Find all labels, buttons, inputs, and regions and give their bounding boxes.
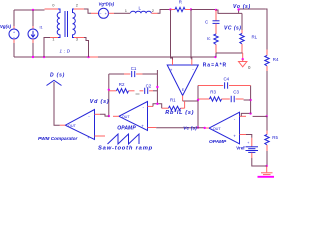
svg-text:R: R <box>179 0 182 5</box>
pin plus comparator <box>95 135 106 137</box>
wire top rail left <box>14 9 50 10</box>
wire R to C node <box>191 9 216 12</box>
svg-text:Vo (s): Vo (s) <box>233 4 251 10</box>
resistor R3 <box>198 97 230 101</box>
node dot rail end <box>214 56 216 58</box>
pin minus U3 <box>240 115 247 117</box>
voltage source Vg <box>9 10 19 57</box>
label R1 <box>170 97 176 102</box>
svg-text:I1: I1 <box>40 25 43 29</box>
svg-text:Vg(s): Vg(s) <box>0 24 12 29</box>
label D(s) <box>50 73 65 79</box>
wire Vo corner to R4 <box>265 9 267 50</box>
wire secondary return <box>84 38 89 58</box>
node dot primary return <box>43 56 45 58</box>
wire primary return <box>44 38 50 58</box>
svg-text:C1: C1 <box>131 66 137 71</box>
svg-text:Rb*IL (s): Rb*IL (s) <box>165 110 194 116</box>
svg-text:+: + <box>170 68 173 73</box>
label I1 <box>40 25 43 29</box>
resistor R4 <box>265 50 269 117</box>
node dot ground <box>242 58 244 60</box>
svg-text:Vg*D(s): Vg*D(s) <box>99 1 115 6</box>
svg-text:+: + <box>247 141 249 145</box>
svg-text:OPAMP: OPAMP <box>209 139 227 145</box>
pin plus U3 <box>240 134 247 136</box>
wire divider to minus input <box>253 115 267 117</box>
wire Vc to plus U1 <box>156 127 209 129</box>
label Saw-tooth ramp <box>98 146 153 152</box>
svg-text:VC (s): VC (s) <box>224 26 241 32</box>
svg-text:OPAMP: OPAMP <box>117 126 136 132</box>
svg-text:Vc (s): Vc (s) <box>183 125 197 130</box>
ground bottom right <box>258 166 275 177</box>
label C <box>205 19 208 24</box>
node dot Vd out <box>108 115 110 117</box>
label Vo (s) <box>233 4 251 10</box>
transformer TX 1:D <box>50 9 84 38</box>
node dot C2 right <box>156 86 158 88</box>
label RL <box>252 35 258 40</box>
wire L to R <box>158 10 171 14</box>
label R2 <box>119 82 125 87</box>
label Rb*IL(s) <box>165 110 194 116</box>
label Ra=A*R <box>203 62 227 68</box>
capacitor C4 <box>198 82 251 88</box>
pin minus U2 <box>191 60 193 66</box>
capacitor C1 <box>109 71 158 77</box>
wire feedback left vertical U1 <box>108 74 110 116</box>
label Vg*D(s) <box>99 1 115 6</box>
node dot I1 bottom <box>32 56 34 58</box>
label OPAMP U3 <box>209 139 227 145</box>
label PWM Comparator <box>38 136 79 141</box>
pin minus comparator <box>95 113 101 115</box>
wire R2-C2 link <box>136 93 140 95</box>
label OPAMP U1 <box>117 126 136 132</box>
node dot Vo <box>237 8 239 10</box>
wire to ground 0 <box>242 53 244 59</box>
node dot secondary return <box>87 56 89 58</box>
label OUT U3 <box>213 127 222 131</box>
svg-text:Vd (s): Vd (s) <box>90 99 110 105</box>
pin 3 <box>76 37 79 42</box>
pin plus U1 <box>148 127 157 129</box>
node dot Vc <box>197 126 199 128</box>
ground 0 <box>239 59 247 67</box>
label R3 <box>210 90 216 95</box>
wire Vc feedback left vertical <box>197 86 199 128</box>
wire Vo tap <box>239 9 266 13</box>
label OUT comparator <box>68 124 77 128</box>
label OUT U1 <box>122 115 131 119</box>
svg-text:Vref: Vref <box>236 145 245 150</box>
op-amp U1 OPAMP (current error amp) <box>119 102 148 131</box>
label 1 : D <box>60 48 71 53</box>
svg-text:OUT: OUT <box>213 127 222 131</box>
svg-text:RL: RL <box>252 35 258 40</box>
wire comparator out to D(s) arrow <box>54 82 60 125</box>
op-amp PWM comparator <box>65 110 94 141</box>
wire secondary top to source <box>84 9 91 13</box>
op-amp U3 OPAMP (voltage error amp) <box>209 112 240 144</box>
pin out comparator <box>60 124 66 126</box>
svg-text:R5: R5 <box>272 135 278 140</box>
svg-text:C4: C4 <box>224 76 230 81</box>
node dot minus-R1 <box>156 103 158 105</box>
node dot Vc apex <box>204 127 206 129</box>
resistor RL <box>240 13 244 53</box>
svg-text:R1: R1 <box>170 97 176 102</box>
resistor R5 <box>265 116 269 166</box>
wire rc-RL bottom link <box>216 52 243 54</box>
label 0 ground <box>248 65 251 70</box>
wire rail to RL corner <box>216 10 242 13</box>
node dot R2 left <box>108 89 110 91</box>
label VC (s) <box>224 26 241 32</box>
pin plus U2 <box>172 60 174 66</box>
wire sense right (R right terminal down) <box>190 10 193 60</box>
wire source to L <box>114 12 130 14</box>
battery Vref <box>246 138 267 166</box>
wire bottom rail <box>14 56 216 58</box>
pin minus U1 <box>148 105 154 107</box>
svg-text:+: + <box>87 135 90 140</box>
label C1 <box>131 66 137 71</box>
node dot divider <box>266 115 268 117</box>
resistor rc <box>214 34 218 57</box>
resistor R <box>171 7 192 11</box>
label C3 <box>233 90 239 95</box>
wire U2 output <box>183 96 198 102</box>
svg-text:R4: R4 <box>273 57 279 62</box>
wire sense left (R left terminal down) <box>171 10 173 60</box>
svg-text:R3: R3 <box>210 90 216 95</box>
resistor R2 <box>109 89 135 93</box>
svg-text:Ra=A*R: Ra=A*R <box>203 62 227 68</box>
node dot R left <box>169 8 171 10</box>
wire Vd node to comparator <box>100 114 109 116</box>
label R4 <box>273 57 279 62</box>
current source I1 <box>28 10 38 57</box>
svg-text:C2: C2 <box>146 83 152 88</box>
svg-text:C: C <box>205 19 208 24</box>
svg-text:+: + <box>141 124 144 129</box>
node dot R right <box>190 8 192 10</box>
pin 2 <box>76 3 79 8</box>
node dot feedback bottom <box>249 112 251 114</box>
svg-text:OUT: OUT <box>122 115 131 119</box>
label Vref <box>236 145 245 150</box>
svg-text:D (s): D (s) <box>50 73 65 79</box>
label rc <box>207 36 211 41</box>
node dot amp-out <box>197 99 199 101</box>
wire minus node elbow <box>153 104 162 108</box>
node dot feedback mid <box>249 99 251 101</box>
pin 0 <box>52 3 55 8</box>
inductor L <box>131 11 158 13</box>
op-amp U2 current sense amp (triangle down) <box>167 65 198 96</box>
label C4 <box>224 76 230 81</box>
label L <box>139 6 142 11</box>
label Vc(s) <box>183 125 197 130</box>
wire minus input net <box>241 113 250 116</box>
resistor R1 <box>162 101 185 110</box>
svg-text:R2: R2 <box>119 82 125 87</box>
pin 1 of L <box>125 8 128 13</box>
voltage source Vg*D(s) <box>91 8 114 18</box>
svg-text:PWM Comparator: PWM Comparator <box>38 136 79 141</box>
pin 2 of L <box>152 8 155 13</box>
capacitor C <box>213 10 220 34</box>
label R <box>179 0 182 5</box>
saw-tooth waveform <box>108 134 140 144</box>
svg-text:1 : D: 1 : D <box>60 48 71 53</box>
svg-text:Saw-tooth ramp: Saw-tooth ramp <box>98 146 153 152</box>
svg-text:C3: C3 <box>233 90 239 95</box>
capacitor C2 <box>140 88 158 94</box>
node junction top-left <box>32 9 34 11</box>
label Vg(s) <box>0 24 12 29</box>
node dot C top <box>215 9 217 11</box>
capacitor C3 <box>231 96 250 102</box>
pin out U1 <box>113 115 119 117</box>
wire plus input to Vref <box>246 135 252 138</box>
wire feedback right vertical U1 <box>156 70 158 104</box>
label Vd (s) <box>90 99 110 105</box>
arrow D(s) <box>47 80 62 85</box>
svg-text:OUT: OUT <box>68 124 77 128</box>
svg-text:+: + <box>233 134 236 139</box>
wire feedback right vertical <box>250 86 252 114</box>
label R5 <box>272 135 278 140</box>
node dot vref-ground <box>266 165 268 167</box>
label C2 <box>146 83 152 88</box>
pin 1 <box>52 37 55 42</box>
